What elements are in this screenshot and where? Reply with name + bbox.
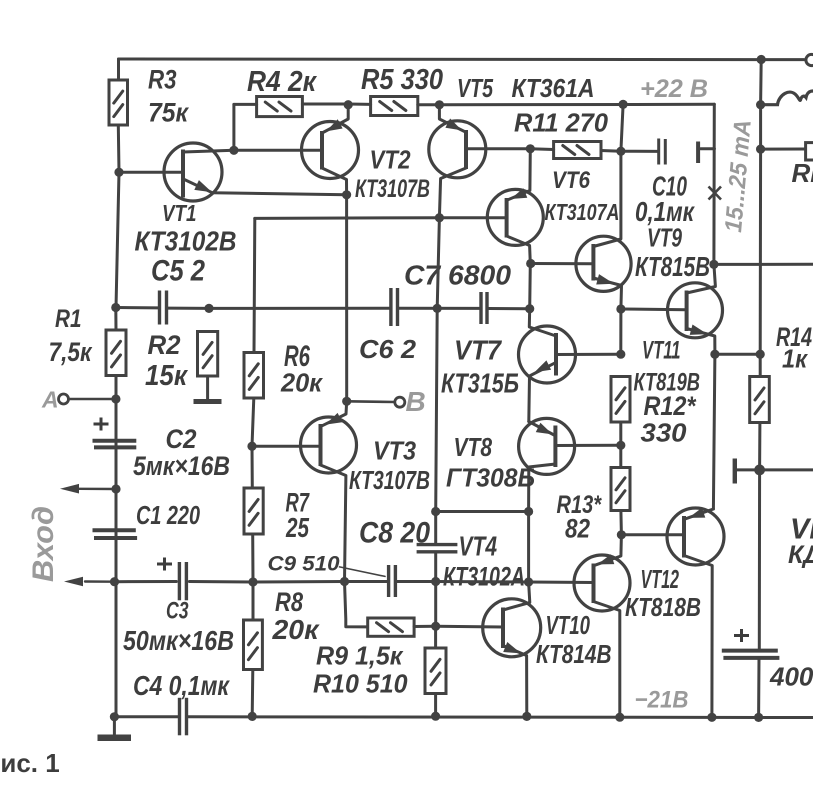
wire VT12 emitter <box>686 509 714 519</box>
arrow VT1 emitter <box>194 180 212 192</box>
wire bottom rail (-21V) <box>188 715 813 719</box>
terminal B <box>395 397 405 407</box>
svg-text:R8: R8 <box>275 587 303 617</box>
svg-text:R9 1,5к: R9 1,5к <box>316 641 404 671</box>
wire C6 to C7 <box>399 307 480 310</box>
resistor R6 <box>244 353 264 399</box>
wire mid column b <box>436 308 438 511</box>
wire top output/feedback rail <box>119 58 805 62</box>
wire VT9 emitter <box>593 278 621 309</box>
wire R9 bottom lead <box>434 694 437 717</box>
wire R5 left <box>348 103 370 106</box>
svg-text:В: В <box>406 386 426 417</box>
ground symbol left <box>98 735 132 742</box>
svg-text:КТ3107В: КТ3107В <box>349 465 430 495</box>
svg-text:С8 20: С8 20 <box>359 517 430 550</box>
wire x621 column a <box>619 309 622 354</box>
wire arrow upper <box>79 488 116 491</box>
svg-text:КТ315Б: КТ315Б <box>441 368 519 399</box>
wire VT11 collector <box>687 264 716 293</box>
junction +22 rail/C10 column <box>619 100 628 109</box>
wire VT10 base lead <box>529 581 594 585</box>
wire C10 left lead <box>621 150 659 153</box>
wire output column c <box>759 149 762 354</box>
svg-text:15к: 15к <box>145 360 188 392</box>
wire R2 to ground <box>206 376 209 399</box>
junction VT7 base/R12 top <box>616 350 625 359</box>
wire x529 column b <box>527 512 530 583</box>
wire VT7 base <box>556 353 621 356</box>
junction VT3 collector/C9 line <box>340 577 349 586</box>
resistor R3 <box>109 80 128 125</box>
svg-text:А: А <box>41 387 59 413</box>
transistor VT7 KT315B <box>519 326 576 383</box>
node R2 top <box>204 304 213 313</box>
wire VT10 collector <box>594 602 620 718</box>
resistor R1 <box>106 330 126 376</box>
wire left column lower <box>115 399 118 717</box>
capacitor plate C11 <box>733 459 737 484</box>
wire VT8 base <box>555 444 620 447</box>
junction R13/VT12 base/VT10 emitter <box>617 530 626 539</box>
svg-text:VT4: VT4 <box>459 531 498 562</box>
node C5 left junction <box>111 303 120 312</box>
junction rail/VT12 collector <box>707 713 716 722</box>
transistor VT8 GT308B <box>519 418 575 474</box>
wire +22V rail <box>439 103 714 107</box>
svg-text:20к: 20к <box>271 614 320 645</box>
svg-text:Вход: Вход <box>27 506 60 582</box>
junction VT6 collector/VT9 base <box>526 259 535 268</box>
wire output column top <box>759 60 763 105</box>
arrow lower (input) <box>64 577 83 587</box>
svg-text:1к: 1к <box>782 344 809 374</box>
wire R6 column <box>253 218 257 352</box>
svg-text:С9 510: С9 510 <box>268 553 340 576</box>
capacitor C6 <box>391 288 398 326</box>
junction R4/R5/VT2 emitter <box>344 100 353 109</box>
svg-text:VT6: VT6 <box>552 167 591 194</box>
svg-text:КТ3102В: КТ3102В <box>135 226 237 257</box>
wire VT2 emitter <box>323 105 348 133</box>
wire VT8 collector <box>529 464 556 512</box>
wire VT6 collector <box>507 236 531 264</box>
svg-text:Рис. 1: Рис. 1 <box>0 748 60 778</box>
resistor R9 (vertical) <box>425 648 446 694</box>
wire C3 to R7/R8 node <box>189 580 253 584</box>
node VT1 base junction <box>114 168 123 177</box>
svg-text:VT7: VT7 <box>454 335 502 366</box>
svg-text:С7 6800: С7 6800 <box>404 260 511 291</box>
arrow VT7 emitter <box>535 360 552 372</box>
svg-text:ГТ308Б: ГТ308Б <box>446 463 535 493</box>
svg-text:КТ3102А: КТ3102А <box>443 562 525 592</box>
wire VT5 emitter <box>439 105 464 132</box>
svg-text:25: 25 <box>285 512 309 543</box>
wire VT1 collector <box>183 150 234 152</box>
junction VT5 collector/VT6 base <box>435 213 444 222</box>
wire C12 to rail <box>757 658 760 718</box>
svg-text:330: 330 <box>641 418 688 448</box>
node input junction <box>110 577 119 586</box>
capacitor C7 <box>481 292 487 324</box>
wire R1 top lead <box>114 308 117 331</box>
wire to C6 <box>209 307 390 310</box>
arrow VT4 emitter <box>503 642 521 653</box>
capacitor C5 <box>160 291 167 325</box>
junction VT8 base/R12/R13 <box>616 441 625 450</box>
wire R3 top lead <box>117 59 120 80</box>
junction rail/R8 <box>248 712 257 721</box>
junction VT1 emitter/VT2 collector <box>342 190 351 199</box>
wire R10 right lead <box>414 625 436 628</box>
inductor L1 <box>761 91 813 105</box>
wire R13 bottom lead <box>619 511 623 535</box>
output terminal <box>806 54 813 65</box>
wire VT2 collector <box>322 168 347 195</box>
svg-text:R11 270: R11 270 <box>514 108 609 138</box>
capacitor C9 <box>389 565 396 597</box>
wire to terminal B <box>347 400 395 403</box>
wire y218 left part <box>255 216 440 220</box>
wire R8 top lead <box>252 582 255 620</box>
callout line C9 <box>340 567 386 577</box>
measuring break X mark <box>709 187 722 200</box>
svg-text:R10 510: R10 510 <box>313 669 408 699</box>
svg-text:VT12: VT12 <box>641 564 680 594</box>
svg-text:VT10: VT10 <box>546 610 591 640</box>
svg-text:20к: 20к <box>280 368 324 398</box>
resistor R5 <box>371 97 418 116</box>
junction VT11 emitter/output <box>710 350 719 359</box>
wire to C3 <box>115 580 177 583</box>
junction VT9 emitter/VT11 base <box>616 304 625 313</box>
svg-text:VT2: VT2 <box>370 145 411 175</box>
arrow VT5 emitter (PNP) <box>445 119 462 131</box>
resistor R14 <box>750 377 770 423</box>
wire C11 to right edge <box>737 468 813 471</box>
arrow VT11 emitter <box>690 325 708 335</box>
junction C8 top <box>431 507 440 516</box>
junction rail/VT10 collector <box>615 713 624 722</box>
junction VT1 collector/R4/VT2 base <box>229 146 238 155</box>
svg-text:С1 220: С1 220 <box>136 500 200 530</box>
resistor R12 <box>611 377 630 423</box>
wire R4 left lead down <box>232 104 235 150</box>
wire VT4 collector <box>503 582 530 610</box>
resistor R10 (horizontal) <box>368 618 414 636</box>
wire to R10 junction <box>434 582 437 627</box>
wire R11 left lead <box>530 147 553 151</box>
arrow upper (output tap) <box>60 484 79 494</box>
junction rail/VT4 emitter <box>522 712 531 721</box>
wire down to C12 <box>758 470 761 650</box>
svg-text:С5 2: С5 2 <box>151 255 205 288</box>
wire VT6 emitter <box>508 149 530 200</box>
svg-text:КТ815В: КТ815В <box>635 251 710 282</box>
junction R11/C10/VT9 collector <box>616 147 625 156</box>
wire R7 bottom lead <box>251 534 254 582</box>
svg-text:КТ818В: КТ818В <box>625 592 701 622</box>
svg-text:С3: С3 <box>166 598 189 625</box>
svg-text:R4 2к: R4 2к <box>247 66 317 98</box>
svg-text:VT9: VT9 <box>647 223 682 253</box>
wire VT9 base <box>531 262 594 265</box>
junction R15 tap <box>756 145 765 154</box>
capacitor C4 <box>180 698 187 736</box>
node arrow1 junction <box>111 484 120 493</box>
wire to terminal A <box>69 398 116 401</box>
wire R6 to VT3 base node <box>252 398 254 446</box>
junction R6/R7/VT3 base <box>247 442 256 451</box>
wire VT7 emitter <box>529 363 555 421</box>
wire R14 bottom lead <box>758 423 761 470</box>
transistor VT10 KT814V <box>574 555 630 611</box>
transistor VT6 KT3107A <box>487 189 543 245</box>
wire output down to VT12 emitter <box>713 354 715 509</box>
svg-text:75к: 75к <box>148 98 189 128</box>
svg-text:82: 82 <box>565 514 590 544</box>
junction R10/VT4 base/R9 <box>431 622 440 631</box>
capacitor C1 <box>93 530 138 538</box>
svg-text:VT11: VT11 <box>642 337 681 365</box>
svg-text:VT8: VT8 <box>454 432 493 462</box>
wire +22 down to VT11 collector <box>712 104 715 264</box>
arrow VT10 emitter (PNP) <box>598 554 615 564</box>
plus sign C12 <box>734 629 749 642</box>
node A junction <box>111 394 120 403</box>
resistor R4 <box>257 97 303 117</box>
wire to R15 <box>761 148 806 151</box>
svg-text:С6 2: С6 2 <box>359 334 417 364</box>
junction top-rail / output column <box>757 55 766 64</box>
node B junction <box>342 397 351 406</box>
wire y511 C8 top to column <box>436 510 529 513</box>
transistor VT5 KT361A <box>429 121 486 178</box>
svg-text:КТ361А: КТ361А <box>512 73 595 103</box>
wire C10 right lead <box>701 147 715 150</box>
wire output column b <box>759 105 762 149</box>
junction R11 left/VT5 base/VT6 emitter <box>526 144 535 153</box>
wire +22 to R11 junction <box>621 104 623 151</box>
wire C9 line to VT10 base <box>436 580 529 584</box>
wire R4 left <box>234 103 257 106</box>
resistor R11 <box>554 142 601 159</box>
wire VT3 collector to R10 <box>345 582 368 627</box>
wire y264 to right edge <box>714 263 813 266</box>
junction VT10 base/VT4 collector <box>524 577 533 586</box>
arrow VT3 emitter (PNP) <box>326 413 343 425</box>
wire VT2 base <box>234 149 322 152</box>
svg-text:−21В: −21В <box>635 687 689 714</box>
wire left column upper <box>116 172 119 307</box>
plus sign C3 <box>157 558 172 571</box>
junction C8/C9 line <box>431 577 440 586</box>
wire C7 right lead <box>489 307 530 310</box>
capacitor C12 400uF <box>722 651 780 658</box>
wire R14 top lead <box>759 354 762 376</box>
wire output to R14 <box>715 353 760 356</box>
wire VT2 collector column <box>345 195 348 401</box>
arrow VT12 emitter (PNP) <box>689 508 706 518</box>
transistor VT1 KT3102V <box>164 143 222 201</box>
wire VT10 emitter <box>595 535 621 565</box>
node ground-left junction <box>110 712 119 721</box>
junction x529/y511 wire <box>524 507 533 516</box>
junction R7/R8/C3 line <box>248 577 257 586</box>
wire C8 top lead <box>434 512 437 544</box>
svg-text:VT3: VT3 <box>373 436 416 466</box>
resistor R15 (clipped) <box>806 143 813 160</box>
junction mid column / C6-C7 line <box>433 304 442 313</box>
wire VT1 base <box>119 171 183 174</box>
wire arrow lower <box>85 580 115 583</box>
junction C7 / VT7 collector <box>525 304 534 313</box>
arrow VT8 emitter (PNP) <box>536 423 553 435</box>
svg-text:5мк×16В: 5мк×16В <box>133 451 230 481</box>
resistor R2 <box>198 332 218 377</box>
wire R12-R13 <box>619 422 622 445</box>
junction inductor tap <box>756 100 765 109</box>
junction +22/VT11 collector <box>709 260 718 269</box>
svg-text:R1: R1 <box>55 305 82 333</box>
wire C5 to R2 <box>168 307 210 310</box>
svg-text:R3: R3 <box>148 65 177 95</box>
arrow VT2 emitter (PNP) <box>326 119 343 131</box>
wire VT8 emitter <box>529 422 555 436</box>
transistor VT2 KT3107V <box>302 122 359 179</box>
svg-text:Rн: Rн <box>792 158 813 188</box>
wire R7 top lead <box>251 446 254 488</box>
wire R13 top lead <box>619 445 622 467</box>
wire R11 right lead <box>601 149 621 153</box>
svg-text:50мк×16В: 50мк×16В <box>123 625 234 656</box>
wire VT12 base <box>621 533 684 536</box>
svg-text:+22 В: +22 В <box>640 75 708 103</box>
wire VT4 emitter <box>503 646 527 717</box>
svg-text:С2: С2 <box>166 424 197 454</box>
svg-text:С4 0,1мк: С4 0,1мк <box>133 670 230 701</box>
svg-text:R2: R2 <box>148 330 181 360</box>
terminal A <box>59 394 69 404</box>
junction rail/R9 <box>431 712 440 721</box>
svg-text:7,5к: 7,5к <box>49 337 93 367</box>
resistor R7 <box>244 488 263 534</box>
svg-text:R12*: R12* <box>644 391 697 421</box>
wire R9 top lead <box>434 626 437 648</box>
transistor VT12 KT818V <box>667 508 724 565</box>
transistor VT4 KT3102A <box>483 599 541 657</box>
wire C8 bottom lead <box>434 554 437 582</box>
transistor VT11 KT819V <box>668 283 723 338</box>
arrow VT9 emitter <box>596 274 614 284</box>
wire VT5 base to R11 <box>466 147 530 150</box>
transistor VT9 KT815V <box>576 236 631 291</box>
wire VT3 emitter <box>322 401 347 426</box>
wire R8 bottom lead <box>251 670 255 717</box>
junction C11 wire <box>754 465 765 476</box>
svg-text:КТ3107А: КТ3107А <box>545 199 620 225</box>
wire VT6 base <box>439 216 506 219</box>
wire VT1 emitter <box>183 179 346 195</box>
transistor VT3 KT3107V <box>301 417 357 473</box>
svg-text:VT1: VT1 <box>162 200 197 226</box>
wire VT4 base <box>436 625 503 629</box>
wire R4-R5 <box>302 103 348 106</box>
wire mid column a <box>437 218 439 309</box>
svg-text:КД: КД <box>788 541 813 569</box>
wire VT3 base <box>252 445 321 448</box>
wire x530 column a <box>528 264 532 309</box>
junction R14 top <box>756 350 765 359</box>
svg-text:R5 330: R5 330 <box>361 64 443 96</box>
wire ground stub <box>113 717 116 735</box>
svg-text:VT5: VT5 <box>457 73 493 103</box>
wire bottom rail left of C4 <box>114 715 177 718</box>
wire R1 bottom lead <box>115 376 118 400</box>
wire C9 line left <box>253 580 345 584</box>
svg-text:КТ814В: КТ814В <box>536 639 612 669</box>
capacitor C2 <box>93 441 137 448</box>
wire VT3 collector <box>321 465 346 582</box>
wire C9 right lead <box>397 580 436 583</box>
wire R3 bottom lead <box>117 125 121 172</box>
wire VT11 base <box>621 308 687 312</box>
arrow VT6 emitter (PNP) <box>511 188 528 199</box>
capacitor C8 <box>417 545 458 552</box>
resistor R8 <box>244 620 263 670</box>
capacitor C10 <box>659 139 698 165</box>
wire VT5 collector <box>439 168 466 218</box>
svg-text:400мк: 400мк <box>769 662 813 692</box>
wire R5 right <box>418 103 440 106</box>
wire VT7 collector <box>529 309 556 336</box>
wire VT9 collector <box>593 151 621 246</box>
wire C5 left lead <box>116 306 159 309</box>
wire VT11 emitter <box>687 329 715 355</box>
ground symbol R2 <box>194 399 222 404</box>
wire VT12 collector <box>684 556 712 718</box>
resistor R13 <box>611 468 630 511</box>
junction rail/C11 <box>754 713 763 722</box>
capacitor C3 <box>179 562 186 600</box>
plus sign C2 <box>94 418 109 431</box>
svg-text:КТ3107В: КТ3107В <box>355 175 430 203</box>
wire to C9 <box>345 580 388 583</box>
junction R5/VT5 emitter/+22V <box>435 100 444 109</box>
